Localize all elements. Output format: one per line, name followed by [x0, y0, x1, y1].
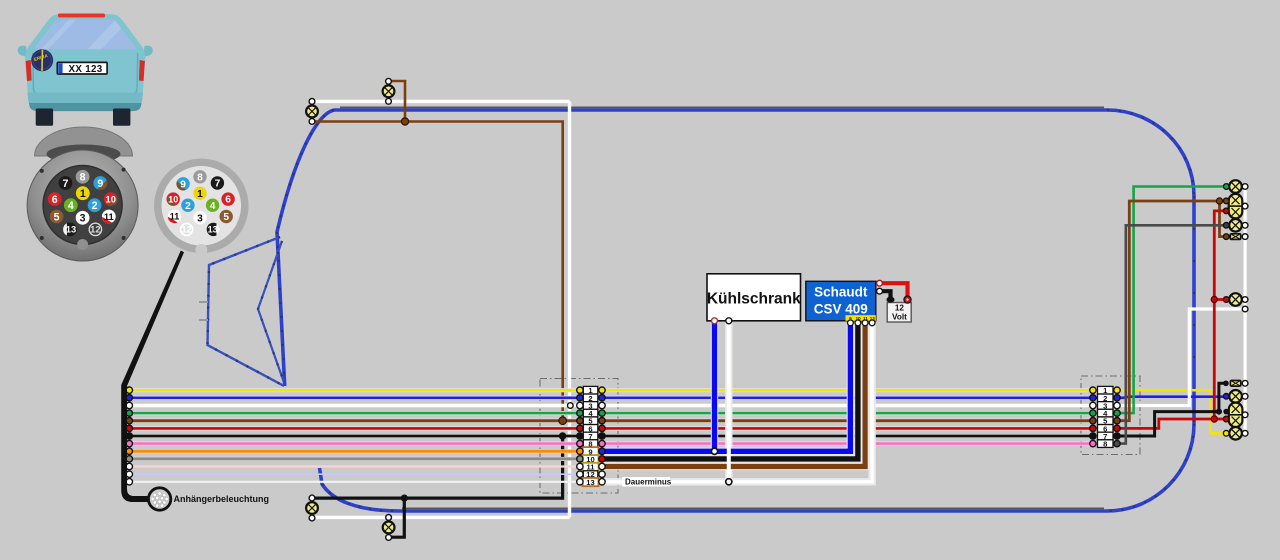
- pin 10 plug: [167, 192, 180, 205]
- drawbar inner rail: [258, 241, 284, 381]
- terminal strip X1 (13 way): [583, 386, 599, 487]
- wire row13 white Dauerminus: [602, 323, 872, 482]
- lamp E9 side marker middle (red feed): [1223, 293, 1248, 306]
- wire row2 blue mid span to blue lamp: [602, 397, 1226, 398]
- svg-text:4: 4: [68, 200, 74, 212]
- wire brown branch to plate lamp: [1220, 201, 1227, 237]
- lamp E3 rear marker left: [306, 495, 318, 521]
- socket keyway notch: [77, 239, 88, 250]
- battery 12 Volt: [887, 296, 912, 322]
- pin 2 plug: [181, 199, 194, 212]
- car bumper shade: [28, 93, 144, 112]
- lamp E4 rear marker: [383, 515, 395, 541]
- pin 11 socket: [102, 210, 116, 224]
- terminal blue Kuehlschrank junction: [711, 448, 717, 454]
- pin 2 socket: [88, 198, 102, 212]
- wire black lampD branch: [389, 498, 405, 537]
- wire row8 grey riser to rear lamp: [1117, 225, 1226, 443]
- wire red right riser: [1214, 211, 1226, 419]
- svg-text:Anhängerbeleuchtung: Anhängerbeleuchtung: [174, 494, 270, 504]
- wire white front-marker top: lampA top to vertical: [312, 100, 570, 103]
- box Schaudt CSV 409 charger: [806, 280, 883, 325]
- wire red battery positive: [880, 283, 908, 299]
- drawbar outer rail: [208, 237, 285, 386]
- car body: [25, 14, 145, 111]
- svg-text:3: 3: [80, 213, 86, 225]
- wire row3 white left: [129, 404, 580, 407]
- car wheels: [36, 109, 53, 126]
- svg-text:7: 7: [62, 178, 68, 190]
- wire row1 yellow mid span to right lamp cluster: [602, 390, 1226, 433]
- svg-text:CSV 409: CSV 409: [814, 302, 868, 317]
- caravan outline shade top: [340, 106, 1104, 108]
- svg-text:Dauerminus: Dauerminus: [625, 478, 672, 487]
- car rear window: [35, 20, 135, 50]
- car mirrors: [18, 46, 28, 57]
- svg-text:12: 12: [895, 304, 905, 313]
- pin 7 plug: [211, 176, 224, 189]
- pin 10 socket: [104, 192, 118, 206]
- wire black bottom: lampC feed to row7: [312, 436, 563, 498]
- terminal dots strip X2 right: [1114, 387, 1120, 447]
- pin 13 socket: [63, 223, 77, 237]
- car licence plate XX 123: [57, 62, 107, 74]
- wire white Kuehlschrank ground drop: [727, 322, 731, 482]
- wire row2 blue left: [129, 396, 580, 399]
- lamp E7 fog right (grey): [1223, 219, 1248, 232]
- terminal dots strip X1 right: [599, 387, 605, 485]
- svg-text:9: 9: [97, 178, 103, 190]
- wire row5 brown left: [129, 419, 580, 422]
- wire row13 white left: [129, 481, 580, 483]
- wire black battery negative: [880, 291, 891, 299]
- connector plug 13pin (caravan side): [158, 162, 245, 256]
- coupling ticks: [199, 302, 208, 320]
- CARAVAN-OUTLINE: [199, 107, 1194, 511]
- wire row6 red left: [129, 427, 580, 430]
- pin 8 plug: [193, 170, 206, 183]
- svg-text:6: 6: [52, 194, 58, 206]
- terminal white Dauerminus junction: [726, 479, 732, 485]
- socket screws: [40, 169, 44, 173]
- wire row8 pink mid span: [602, 442, 1093, 445]
- svg-text:2: 2: [92, 200, 98, 212]
- lamp E13 indicator left (yellow feed): [1223, 427, 1248, 440]
- svg-text:7: 7: [215, 179, 221, 190]
- wire row5 brown mid span and riser to tail lamp: [602, 419, 1093, 422]
- wire white ground right riser: [1117, 309, 1245, 406]
- wire black branch to rect lamp: [1219, 383, 1226, 411]
- wire white bottom marker line: [312, 516, 570, 519]
- svg-text:11: 11: [104, 211, 114, 222]
- pin 12 plug: [181, 223, 193, 235]
- car tail light left: [26, 60, 32, 81]
- svg-text:1: 1: [80, 188, 86, 200]
- lamp E11 reverse (blue feed): [1223, 390, 1248, 403]
- car tailgate crease: [33, 53, 138, 95]
- left bundle casings: [129, 390, 580, 459]
- svg-text:6: 6: [225, 195, 231, 206]
- pin 9 socket: [93, 176, 107, 190]
- svg-text:1: 1: [197, 189, 203, 200]
- pin terminals CSV bottom 9 10 11 13: [848, 320, 854, 326]
- car tail light right: [139, 60, 145, 81]
- junction black bottom lamps: [401, 495, 408, 502]
- wire row1 yellow left: [129, 389, 580, 392]
- wire white vertical mid (pin3 ground riser): [568, 101, 571, 517]
- caravan body outline blue wire: [277, 110, 1194, 511]
- pin 1 plug: [193, 187, 206, 200]
- svg-text:Volt: Volt: [892, 313, 907, 322]
- mid bundle casings: [602, 390, 1093, 443]
- svg-text:8: 8: [1103, 440, 1107, 449]
- wire row10 grey left: [129, 457, 580, 460]
- wire red stub middle lamp: [1214, 298, 1226, 301]
- svg-text:10: 10: [105, 193, 115, 204]
- battery negative pole: [887, 297, 895, 303]
- terminal strip X2 dash-dot enclosure: [1081, 376, 1140, 455]
- pin 12 socket: [89, 223, 101, 235]
- socket inner face: [43, 166, 122, 245]
- svg-text:XX 123: XX 123: [69, 64, 103, 75]
- svg-text:8: 8: [197, 172, 203, 183]
- wire row10 thick black to CSV: [602, 323, 858, 459]
- pin 9 plug: [176, 177, 189, 190]
- lamp E5 indicator right (green): [1223, 180, 1247, 193]
- lamp E12 tail+stop left (double): [1223, 403, 1248, 427]
- terminal strip X1 dash-dot enclosure: [540, 379, 618, 494]
- lamp E10 plate lamp left (rect): [1223, 380, 1248, 386]
- box Kuehlschrank: [707, 274, 801, 324]
- wire brown top: lampA bottom feed: [312, 122, 563, 421]
- wire row6 red mid span and jog to stop lamp: [602, 427, 1093, 430]
- wire row7 black mid span and jog: [602, 435, 1093, 438]
- junction brown row5: [559, 417, 567, 425]
- svg-text:12: 12: [90, 224, 100, 235]
- svg-text:Kühlschrank: Kühlschrank: [707, 291, 801, 308]
- terminal strip X2 (8 way): [1098, 386, 1114, 448]
- wire white right lamp bus: [1243, 187, 1246, 434]
- pin 8 socket: [76, 170, 90, 184]
- wire row8 pink left: [129, 442, 580, 445]
- car rear view: [18, 14, 153, 126]
- lamp E2 front marker roof: [383, 78, 395, 104]
- pin 1 socket: [76, 186, 90, 200]
- wire row9 orange left: [129, 450, 580, 453]
- terminal white on row3 riser: [567, 403, 573, 409]
- trailer cable feed polygon: [121, 251, 184, 503]
- pin terminal CSV +12V out: [877, 280, 883, 286]
- wire row3 white mid span: [602, 404, 1093, 407]
- pin 5 socket: [50, 210, 64, 224]
- car Eriba sticker: [28, 46, 56, 74]
- pin 6 socket: [48, 192, 62, 206]
- terminal dots strip X2 left: [1090, 387, 1096, 447]
- connector socket 13pin (car side): [27, 150, 138, 261]
- junction brown right cluster: [1216, 198, 1222, 204]
- svg-text:13: 13: [66, 224, 76, 235]
- wire row4 green mid span and riser to green lamp: [602, 412, 1093, 415]
- wire brown lampB feed: [389, 81, 406, 122]
- junction red right riser bottom: [1211, 416, 1217, 422]
- pin terminal CSV minus out: [877, 288, 883, 294]
- terminal dots car side: [126, 387, 132, 485]
- junction brown top lamps: [401, 118, 408, 125]
- svg-text:11: 11: [170, 212, 180, 222]
- lamp E6 tail+stop right (double): [1223, 194, 1248, 218]
- junction red right riser top: [1211, 296, 1217, 302]
- svg-text:3: 3: [197, 213, 203, 224]
- svg-text:5: 5: [54, 211, 60, 223]
- lamp E1 front marker left: [306, 99, 318, 125]
- pin 3 socket: [76, 211, 90, 225]
- svg-text:5: 5: [223, 212, 229, 223]
- svg-text:2: 2: [185, 201, 191, 212]
- battery positive pole: [904, 296, 911, 303]
- svg-text:13: 13: [208, 225, 218, 235]
- svg-text:13: 13: [586, 478, 594, 487]
- Dauerminus label: [622, 477, 670, 487]
- pin 11 plug: [168, 210, 181, 223]
- svg-text:12: 12: [182, 225, 192, 235]
- car brake light strip: [58, 14, 105, 18]
- pin 3 plug: [193, 211, 206, 224]
- pin 13 plug: [207, 223, 220, 236]
- svg-text:10: 10: [168, 194, 178, 204]
- cable cross-section Anhaengerbeleuchtung: [148, 488, 170, 510]
- junction white right bus: [1242, 306, 1248, 312]
- pin 7 socket: [59, 176, 73, 190]
- wire row4 green left: [129, 412, 580, 415]
- junction black right cluster: [1216, 409, 1222, 415]
- wire row9 thick blue to Kuehlschrank and CSV: [602, 323, 850, 451]
- caravan outline dark flecks on corners: [277, 110, 1194, 511]
- svg-text:9: 9: [180, 179, 186, 190]
- wire row7 black left: [129, 435, 580, 438]
- wire row11 thick brown to CSV: [602, 323, 865, 467]
- thick wire casings: [602, 322, 872, 482]
- caravan outline shade bottom: [402, 507, 1104, 509]
- pin 4 socket: [64, 198, 78, 212]
- wire row11 pale-pink left: [129, 465, 580, 467]
- terminal dots strip X1 left: [577, 387, 583, 485]
- pin 6 plug: [221, 192, 234, 205]
- svg-text:4: 4: [210, 201, 216, 212]
- socket cap opening shadow: [47, 145, 121, 164]
- svg-text:8: 8: [80, 172, 86, 184]
- pin 4 plug: [206, 199, 219, 212]
- lamp E8 plate lamp right (rect): [1223, 234, 1248, 240]
- svg-text:Schaudt: Schaudt: [814, 285, 868, 300]
- junction black row7: [559, 432, 567, 440]
- wire row12 pale-blue left: [129, 473, 580, 475]
- pin 5 plug: [220, 210, 233, 223]
- socket cap dome: [35, 127, 133, 156]
